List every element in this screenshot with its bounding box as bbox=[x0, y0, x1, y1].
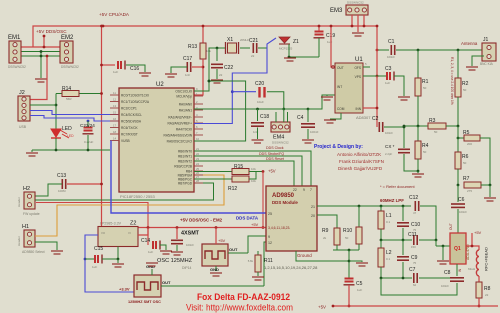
svg-text:C18: C18 bbox=[260, 114, 269, 120]
ground U1 in bbox=[326, 95, 328, 96]
svg-text:RC0/T1OSO/T1CKI: RC0/T1OSO/T1CKI bbox=[121, 93, 149, 97]
wire EM1-EM2 pin3 bbox=[21, 55, 60, 57]
wire H1 pin1 orange bbox=[35, 175, 224, 236]
wire H2 +5V red bbox=[36, 203, 148, 228]
wire LED cathode bbox=[55, 138, 57, 150]
wire C15 right bbox=[102, 258, 118, 260]
ground C16 bbox=[139, 73, 151, 76]
svg-text:DSSWNC52: DSSWNC52 bbox=[272, 141, 289, 145]
svg-text:275: 275 bbox=[467, 189, 472, 193]
wire C18 gnd bbox=[257, 128, 259, 140]
svg-text:R5: R5 bbox=[463, 130, 470, 136]
svg-text:22: 22 bbox=[485, 293, 489, 297]
ground rail-left bbox=[31, 150, 33, 152]
svg-text:12: 12 bbox=[268, 241, 272, 245]
svg-text:+3.3V: +3.3V bbox=[119, 287, 130, 292]
svg-text:+5V: +5V bbox=[251, 222, 259, 227]
wire U1 inn red bbox=[376, 76, 378, 127]
wire C4 to U1 bbox=[308, 95, 335, 109]
svg-text:USB: USB bbox=[19, 125, 27, 129]
capacitor C22 bbox=[216, 48, 218, 61]
wire mid rail bbox=[381, 239, 412, 241]
capacitor C4 bbox=[307, 109, 309, 122]
svg-text:R1: R1 bbox=[422, 79, 429, 85]
capacitor C14 bbox=[147, 228, 149, 246]
svg-text:+5V: +5V bbox=[218, 238, 226, 243]
IC U2 body bbox=[119, 88, 194, 192]
capacitor C2 bbox=[379, 122, 382, 132]
svg-text:75: 75 bbox=[413, 261, 417, 265]
wire X1-C21 bbox=[240, 47, 250, 49]
wire OSC2 +5V bbox=[215, 228, 217, 245]
resistor R1 bbox=[417, 50, 419, 78]
svg-text:Q1: Q1 bbox=[454, 246, 461, 252]
svg-text:Visit: http://www.foxdelta.com: Visit: http://www.foxdelta.com bbox=[186, 303, 293, 313]
svg-text:9: 9 bbox=[268, 235, 270, 239]
wire coil to R8 bbox=[478, 276, 480, 282]
svg-text:R1, 2, 3, 4 = use 2.4 100 ohm: R1, 2, 3, 4 = use 2.4 100 ohm 1% bbox=[450, 57, 454, 105]
svg-text:3,4,6,11,18,23.: 3,4,6,11,18,23. bbox=[268, 226, 290, 230]
wire OSC2 out bbox=[228, 252, 248, 254]
svg-text:C6: C6 bbox=[458, 197, 465, 203]
ground EM3 bbox=[352, 33, 364, 36]
svg-text:1uF: 1uF bbox=[357, 288, 362, 292]
wire C9 bottom bbox=[402, 262, 404, 278]
wire OSC1 gnd bbox=[151, 269, 153, 275]
svg-text:+5V: +5V bbox=[474, 230, 482, 235]
wire R5 stub bbox=[458, 137, 464, 139]
svg-text:RB1/INT1: RB1/INT1 bbox=[178, 154, 192, 158]
svg-text:LED: LED bbox=[67, 134, 74, 138]
svg-text:C23/24: C23/24 bbox=[80, 123, 95, 128]
inductor RFC bbox=[476, 250, 479, 276]
svg-text:100nF: 100nF bbox=[310, 130, 319, 134]
svg-text:C4: C4 bbox=[297, 115, 304, 121]
svg-text:C8: C8 bbox=[444, 270, 451, 276]
svg-text:50: 50 bbox=[423, 150, 427, 154]
svg-text:+5V DDS/OSC - EM2: +5V DDS/OSC - EM2 bbox=[180, 218, 223, 223]
svg-text:C13: C13 bbox=[57, 173, 66, 179]
svg-text:RB2/INT2: RB2/INT2 bbox=[178, 159, 192, 163]
connector EM3 bbox=[346, 5, 368, 15]
crystal X1 bbox=[222, 47, 226, 49]
svg-text:1uF: 1uF bbox=[113, 70, 118, 74]
wire DDS gnd pin bbox=[296, 251, 349, 261]
wire to C5 bbox=[348, 250, 350, 279]
svg-text:RA3/AN3/VREF+: RA3/AN3/VREF+ bbox=[167, 121, 192, 125]
wire C22 gnd bbox=[216, 69, 218, 79]
resistor R11 bbox=[257, 251, 259, 255]
svg-text:DSSWNC52: DSSWNC52 bbox=[61, 65, 79, 69]
svg-text:C20: C20 bbox=[255, 81, 264, 87]
svg-text:CX *: CX * bbox=[385, 144, 395, 149]
svg-text:RA2/AN2/VREF-: RA2/AN2/VREF- bbox=[168, 115, 192, 119]
ground R7 bbox=[489, 185, 491, 197]
svg-text:Header: Header bbox=[17, 197, 21, 207]
svg-text:INN: INN bbox=[356, 107, 362, 111]
wire U1 vps red bbox=[376, 26, 378, 76]
svg-text:U1: U1 bbox=[355, 57, 363, 63]
wire C19 bottom bbox=[318, 38, 320, 57]
svg-text:H2: H2 bbox=[23, 186, 30, 192]
inductor L2 bbox=[380, 240, 382, 248]
connector EM2 bbox=[60, 41, 73, 63]
svg-text:50: 50 bbox=[423, 86, 427, 90]
wire L2 bottom bbox=[380, 267, 382, 278]
wire +5V drop x46 bbox=[30, 56, 47, 100]
wire C17 right bbox=[192, 66, 203, 68]
svg-text:RC4/SCK/SCL: RC4/SCK/SCL bbox=[121, 113, 142, 117]
IC Z2 LP2985 bbox=[98, 227, 138, 247]
diode Z1 MCP1525 bbox=[279, 37, 290, 44]
svg-text:DSSWNC52: DSSWNC52 bbox=[8, 65, 26, 69]
wire R3 rail bbox=[404, 125, 428, 127]
capacitor C16 bbox=[118, 61, 125, 70]
resistor R9 bbox=[334, 228, 340, 245]
ground H1 bbox=[51, 251, 63, 254]
connector J1 BNC bbox=[482, 43, 496, 61]
wire H2 pin2 bbox=[35, 183, 214, 200]
ground C14 bbox=[160, 251, 172, 254]
capacitor C15 bbox=[85, 258, 95, 260]
svg-text:PIC18F2550 / 2553: PIC18F2550 / 2553 bbox=[120, 194, 155, 199]
ground R9R10 bbox=[349, 261, 362, 262]
svg-text:* = Refer document: * = Refer document bbox=[380, 184, 415, 189]
wire EM1-EM2 pin1 bbox=[21, 46, 60, 48]
wire +5V DDS/OSC drop bbox=[43, 36, 45, 47]
wire Z2 in bbox=[138, 228, 148, 236]
wire C2 right bbox=[384, 126, 404, 128]
ground C15 bbox=[117, 259, 119, 263]
wire RA6 riser bbox=[194, 81, 246, 141]
wire Q1 gnd stub bbox=[442, 246, 444, 260]
svg-text:RC5/SDI/SDA: RC5/SDI/SDA bbox=[121, 119, 142, 123]
svg-text:EM3: EM3 bbox=[330, 8, 343, 14]
resistor R15 bbox=[232, 169, 249, 175]
capacitor C9 bbox=[402, 240, 404, 255]
resistor R5 bbox=[464, 135, 480, 141]
svg-text:1nF: 1nF bbox=[185, 73, 190, 77]
svg-text:OUT: OUT bbox=[162, 280, 171, 285]
wire +5V drop x101 bbox=[101, 26, 103, 228]
wire Q1 out red bbox=[466, 233, 472, 246]
svg-text:R7: R7 bbox=[463, 176, 470, 182]
wire C23 bottom bbox=[87, 135, 89, 150]
wire C4 gnd bbox=[307, 129, 309, 139]
wire +5V bottom rail bbox=[333, 305, 498, 307]
IC U1 AD8307 bbox=[335, 63, 363, 113]
wire DDS Strobe bbox=[194, 156, 302, 186]
wire DDS out20 bbox=[317, 215, 337, 228]
wire R13 to MCLR bbox=[194, 59, 203, 95]
wire R11 bottom bbox=[257, 272, 259, 276]
capacitor C5 bbox=[344, 279, 355, 285]
wire USB D+ blue bbox=[30, 116, 119, 122]
svg-text:AD8307: AD8307 bbox=[356, 115, 371, 120]
svg-text:+5V: +5V bbox=[268, 169, 276, 174]
ground C17 bbox=[165, 74, 177, 77]
svg-text:R12: R12 bbox=[228, 186, 237, 192]
wire RB6 to R12 bbox=[194, 178, 232, 180]
svg-text:100nF: 100nF bbox=[186, 243, 194, 247]
wire C5 to +5V bbox=[348, 285, 350, 306]
svg-text:GND: GND bbox=[210, 267, 219, 272]
svg-text:100nF: 100nF bbox=[441, 284, 449, 288]
svg-text:DDS DATA: DDS DATA bbox=[236, 216, 259, 221]
wire EM1-EM2 pin2 bbox=[21, 51, 60, 53]
svg-text:C7: C7 bbox=[409, 267, 416, 273]
capacitor C18 bbox=[257, 109, 259, 121]
capacitor C13 bbox=[62, 179, 65, 189]
wire C14 right bbox=[160, 245, 166, 250]
svg-text:DIP14: DIP14 bbox=[182, 266, 192, 270]
capacitor C6 bbox=[457, 185, 459, 202]
wire L1 bottom bbox=[380, 229, 382, 240]
wire R13 top bbox=[202, 26, 204, 43]
svg-text:Z1: Z1 bbox=[293, 39, 299, 45]
svg-text:RC7/RX/DT: RC7/RX/DT bbox=[121, 132, 138, 136]
svg-text:100nF: 100nF bbox=[387, 55, 395, 59]
svg-text:AD9850: AD9850 bbox=[272, 193, 295, 199]
wire EM mid ground bbox=[40, 52, 42, 79]
resistor R8 bbox=[476, 282, 482, 298]
svg-text:Z2: Z2 bbox=[130, 221, 136, 227]
resistor R12 bbox=[232, 176, 249, 182]
wire Z1 gnd bbox=[289, 44, 319, 57]
svg-text:+5V CPU/ADA: +5V CPU/ADA bbox=[99, 12, 130, 17]
svg-text:C16: C16 bbox=[130, 66, 139, 72]
wire C20 blue branch bbox=[232, 91, 256, 93]
wire C17 left bbox=[171, 67, 187, 73]
svg-text:R2: R2 bbox=[462, 81, 469, 87]
svg-text:RC2/CCP1: RC2/CCP1 bbox=[121, 106, 137, 110]
capacitor C17 bbox=[187, 62, 190, 72]
svg-text:R14: R14 bbox=[62, 86, 71, 92]
ground C3 bbox=[398, 97, 410, 100]
svg-text:RB7/PGD: RB7/PGD bbox=[178, 181, 193, 185]
wire C13 left bbox=[35, 184, 62, 196]
capacitor C21 bbox=[253, 43, 256, 53]
svg-text:10k: 10k bbox=[251, 179, 256, 183]
wire RA1 bus bbox=[194, 108, 308, 110]
wire Z2 gnd bbox=[117, 247, 119, 260]
svg-text:50: 50 bbox=[463, 161, 467, 165]
wire R4 bottom bbox=[417, 159, 419, 171]
svg-text:R11: R11 bbox=[264, 258, 273, 264]
svg-text:100nF: 100nF bbox=[459, 210, 467, 214]
svg-text:EM2: EM2 bbox=[61, 35, 74, 41]
svg-text:U2: U2 bbox=[156, 82, 164, 88]
svg-text:AD9850 Select: AD9850 Select bbox=[22, 250, 45, 254]
resistor R14 bbox=[62, 91, 79, 97]
svg-text:R9: R9 bbox=[322, 228, 329, 234]
svg-text:ADA-4789: ADA-4789 bbox=[466, 244, 470, 260]
connector J2 bbox=[18, 96, 30, 121]
svg-text:Fox Delta FD-AAZ-0912: Fox Delta FD-AAZ-0912 bbox=[197, 292, 290, 302]
wire Q1 to coil bbox=[472, 246, 479, 250]
wire OSC2 to pin9 bbox=[248, 236, 266, 253]
svg-text:RC6/TX/CK: RC6/TX/CK bbox=[121, 126, 139, 130]
svg-text:1uF: 1uF bbox=[385, 81, 390, 85]
resistor R13 bbox=[200, 43, 206, 59]
connector H1 bbox=[24, 230, 35, 247]
svg-text:20: 20 bbox=[311, 214, 315, 218]
svg-text:5.6k: 5.6k bbox=[248, 259, 254, 263]
svg-text:DDS Clock: DDS Clock bbox=[266, 146, 284, 150]
svg-text:L1: L1 bbox=[386, 213, 392, 219]
svg-text:C17: C17 bbox=[183, 56, 192, 62]
wire Z1 ref blue bbox=[194, 38, 276, 124]
svg-text:25: 25 bbox=[268, 212, 272, 216]
wire C16 right bbox=[126, 65, 145, 72]
capacitor C3 bbox=[387, 72, 394, 81]
svg-text:100M: 100M bbox=[58, 189, 66, 193]
resistor R4 bbox=[417, 126, 419, 141]
ground Q1 in bbox=[437, 261, 449, 264]
wire R2 bottom bbox=[457, 97, 459, 126]
wire bottom return bbox=[381, 278, 457, 295]
wire C16 left bbox=[102, 64, 116, 66]
svg-text:C5: C5 bbox=[356, 281, 363, 287]
wire C6 to Q1 bbox=[457, 209, 459, 233]
svg-text:22: 22 bbox=[293, 188, 297, 192]
svg-text:Antonio Alfinito/I2TZK: Antonio Alfinito/I2TZK bbox=[337, 152, 382, 157]
svg-text:R6: R6 bbox=[462, 154, 469, 160]
wire bot rail bbox=[381, 277, 412, 279]
svg-text:1uF: 1uF bbox=[148, 250, 153, 254]
wire CX bottom bbox=[404, 154, 418, 171]
wire C10 bottom bbox=[402, 228, 404, 240]
wire Z2 out blue bbox=[85, 235, 134, 292]
svg-text:50: 50 bbox=[345, 236, 349, 240]
svg-text:62: 62 bbox=[413, 283, 417, 287]
svg-text:125MHZ SMT OSC: 125MHZ SMT OSC bbox=[128, 300, 161, 304]
wire gnd rail y150 bbox=[32, 149, 110, 151]
wire DDS DATA rail bbox=[111, 141, 266, 214]
capacitor C20 bbox=[260, 87, 265, 98]
ground R4 bbox=[417, 171, 419, 173]
svg-text:0.1: 0.1 bbox=[386, 257, 391, 261]
svg-text:C2: C2 bbox=[372, 116, 379, 122]
svg-text:Frank Dziurda/K7SFN: Frank Dziurda/K7SFN bbox=[339, 159, 384, 164]
svg-text:FW update: FW update bbox=[23, 212, 40, 216]
capacitor C0 4XSMT bbox=[176, 228, 178, 240]
svg-text:RC1/T1OSI/CCP2A: RC1/T1OSI/CCP2A bbox=[121, 100, 150, 104]
resistor R2 bbox=[457, 50, 459, 78]
svg-text:0.1: 0.1 bbox=[386, 220, 391, 224]
svg-text:C15: C15 bbox=[94, 246, 103, 252]
svg-text:+5V: +5V bbox=[318, 305, 326, 310]
connector EM4 bbox=[271, 122, 290, 132]
svg-text:7: 7 bbox=[310, 188, 312, 192]
wire +5V DDS rail bbox=[102, 227, 267, 229]
svg-text:H1: H1 bbox=[22, 224, 29, 230]
svg-text:60MHZ LPF: 60MHZ LPF bbox=[380, 198, 404, 203]
IC Q1 ADA-4789 bbox=[450, 233, 466, 264]
ground EM1-EM2 bbox=[35, 79, 47, 82]
wire DDS Clock bbox=[194, 151, 311, 186]
svg-text:9: 9 bbox=[303, 188, 305, 192]
oscillator OSC1 SMT bbox=[134, 275, 161, 297]
svg-text:C11: C11 bbox=[408, 232, 417, 238]
svg-text:DSSWNC52: DSSWNC52 bbox=[347, 1, 364, 5]
wire C3 right bbox=[394, 76, 404, 96]
svg-text:COM: COM bbox=[337, 107, 345, 111]
ground Z1 bbox=[284, 58, 296, 61]
svg-text:OUT: OUT bbox=[229, 247, 238, 252]
wire EM4 pin3 bbox=[287, 112, 289, 122]
wire +5V top rail bbox=[33, 26, 377, 47]
capacitor C8 bbox=[456, 264, 458, 276]
wire DDS out21 bbox=[317, 205, 411, 207]
wire C11 right bbox=[419, 239, 436, 241]
svg-text:R10: R10 bbox=[343, 228, 352, 234]
svg-text:BNC KIA: BNC KIA bbox=[480, 62, 494, 66]
wire C21 right bbox=[258, 47, 267, 49]
wire EM4 pin2 bbox=[283, 109, 285, 122]
svg-text:R8: R8 bbox=[484, 286, 491, 292]
ground U1 com bbox=[324, 120, 336, 123]
resistor R3 bbox=[428, 123, 446, 129]
svg-text:OSC1/CLKI: OSC1/CLKI bbox=[175, 89, 192, 93]
capacitor C7 bbox=[414, 273, 417, 283]
wire J1 gnd bbox=[472, 56, 484, 66]
wire R1 bottom bbox=[417, 96, 419, 126]
svg-text:MCP1525: MCP1525 bbox=[279, 47, 293, 51]
svg-text:R4: R4 bbox=[422, 143, 429, 149]
wire to Q1 in bbox=[436, 245, 450, 247]
svg-text:OUT: OUT bbox=[449, 223, 453, 230]
connector H2 bbox=[24, 192, 35, 209]
wire C13 right red bbox=[67, 183, 102, 185]
wire antenna net bbox=[396, 49, 484, 51]
svg-text:4XSMT: 4XSMT bbox=[181, 231, 200, 237]
svg-text:C1: C1 bbox=[388, 39, 395, 45]
svg-text:EM1: EM1 bbox=[8, 35, 21, 41]
capacitor C19 bbox=[314, 32, 325, 38]
svg-text:C21: C21 bbox=[249, 38, 258, 44]
svg-text:DDS Strobe/FQ: DDS Strobe/FQ bbox=[259, 152, 284, 156]
svg-text:63uH: 63uH bbox=[468, 267, 475, 271]
wire U1 ofs stub bbox=[363, 66, 370, 68]
svg-text:VPS: VPS bbox=[355, 75, 361, 79]
svg-text:MCLR/Vpp: MCLR/Vpp bbox=[176, 94, 192, 98]
svg-text:C3: C3 bbox=[385, 66, 392, 72]
wire OSC1 out bbox=[161, 285, 264, 287]
svg-text:RA4/T0CKI: RA4/T0CKI bbox=[176, 127, 192, 131]
svg-text:C14: C14 bbox=[141, 238, 150, 244]
svg-text:47: 47 bbox=[413, 211, 417, 215]
wire R15 right bbox=[249, 171, 263, 173]
wire EM3 pins bbox=[351, 15, 353, 26]
svg-text:50: 50 bbox=[463, 88, 467, 92]
wire C7 right bbox=[419, 277, 457, 279]
ground J1 bbox=[466, 67, 478, 70]
svg-text:RA6/OSC2/CLKO: RA6/OSC2/CLKO bbox=[167, 139, 193, 143]
svg-text:INT: INT bbox=[337, 85, 342, 89]
svg-text:R15: R15 bbox=[234, 164, 243, 170]
svg-text:10uF: 10uF bbox=[257, 100, 264, 104]
wire USB D- blue bbox=[30, 111, 119, 115]
capacitor C10 bbox=[402, 206, 404, 221]
svg-text:22: 22 bbox=[251, 54, 255, 58]
ground OSC2 bbox=[210, 273, 222, 276]
wire R12 right bbox=[249, 172, 256, 180]
svg-text:L2: L2 bbox=[386, 250, 392, 256]
IC AD9850 module bbox=[266, 186, 317, 251]
oscillator OSC2 DIP14 bbox=[202, 244, 228, 266]
wire R8 bottom bbox=[478, 298, 480, 306]
